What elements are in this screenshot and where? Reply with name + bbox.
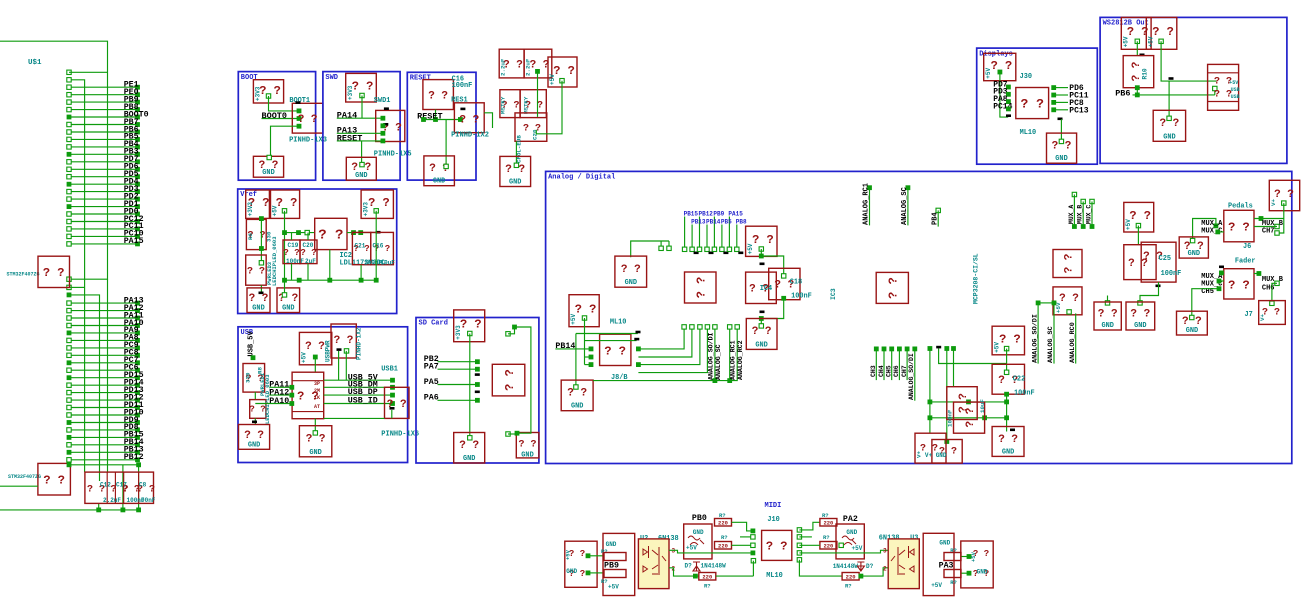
wire pin PD11: [69, 407, 137, 409]
svg-text:SWD: SWD: [325, 74, 338, 82]
wire pin PD4: [69, 183, 137, 185]
svg-text:GND: GND: [939, 540, 950, 547]
wire pin PC12: [69, 221, 137, 223]
svg-text:PB8: PB8: [736, 219, 747, 226]
svg-text:+5V: +5V: [570, 313, 577, 324]
connector PINHD-1X2 (USB aux): [331, 324, 356, 358]
ground (Displays): [1047, 133, 1077, 163]
svg-text:C20: C20: [303, 242, 314, 249]
wire LED to GND: [260, 285, 262, 294]
svg-text:AT: AT: [314, 404, 320, 410]
svg-text:PB14: PB14: [555, 342, 575, 351]
svg-text:? ?: ? ?: [283, 248, 299, 258]
svg-text:? ?: ? ?: [305, 341, 325, 353]
svg-text:J30: J30: [1020, 73, 1032, 81]
wire PA5: [438, 384, 478, 386]
wire pin PA12: [69, 310, 137, 312]
svg-text:RESET: RESET: [417, 112, 443, 122]
resistor R10: [1123, 56, 1154, 88]
wire GND to J6 MUX_A row: [1193, 219, 1216, 241]
wire pin PB3: [69, 153, 137, 155]
wire C16 to RESET row: [435, 110, 437, 120]
svg-text:+5V: +5V: [970, 551, 977, 562]
svg-text:100nF: 100nF: [1161, 270, 1182, 278]
svg-text:2.2uF: 2.2uF: [500, 58, 507, 76]
power +5V (WS b): [1146, 17, 1177, 49]
svg-text:J7: J7: [1245, 311, 1253, 319]
svg-text:USBPWR: USBPWR: [324, 340, 331, 362]
svg-text:MUX_C: MUX_C: [1086, 205, 1093, 224]
wire J10 pin5 riser: [751, 559, 755, 563]
svg-text:GND: GND: [509, 179, 521, 187]
wire pin PC7: [69, 362, 137, 364]
svg-text:J10: J10: [767, 516, 779, 524]
svg-text:100nF: 100nF: [286, 258, 304, 265]
wire pin PA13: [69, 302, 137, 304]
svg-text:2uF: 2uF: [305, 258, 316, 265]
wire net SPI1: [684, 217, 686, 250]
wire 220a to J10 pin1: [732, 522, 753, 531]
capacitor C18: [769, 268, 800, 299]
wire PB14: [555, 348, 591, 350]
wire net ANALOG_RC0 (aux): [1075, 313, 1077, 363]
wire GND stub 2: [1107, 296, 1109, 303]
svg-text:GND: GND: [571, 403, 583, 411]
svg-text:? ?: ? ?: [428, 91, 448, 103]
wire USB_DM net: [324, 386, 393, 388]
wire pin PA10: [69, 325, 137, 327]
wire net SPI4: [706, 225, 708, 250]
wire aux pin2: [345, 351, 347, 380]
connector aux (rotated) 1: [1053, 250, 1082, 278]
wire pin PD14: [69, 384, 137, 386]
diode network box (right): [836, 524, 864, 559]
wire pin PD9: [69, 422, 137, 424]
svg-text:CH3: CH3: [870, 365, 877, 377]
svg-text:+5V: +5V: [747, 243, 754, 254]
power +5V (mux): [1124, 202, 1154, 232]
resistor 220 (left b): [715, 542, 732, 550]
wire MCU pin branch 3: [69, 295, 100, 481]
wire pin PD0: [69, 213, 137, 215]
svg-text:100nF: 100nF: [452, 82, 473, 90]
svg-text:? ?: ? ?: [887, 277, 901, 299]
svg-text:? ?: ? ?: [965, 408, 977, 428]
svg-text:? ?: ? ?: [999, 333, 1021, 347]
wire +5V rail vertical: [282, 209, 286, 213]
svg-text:? ?: ? ?: [752, 233, 774, 247]
svg-text:220: 220: [823, 543, 833, 550]
wire GND drop (J8): [575, 334, 577, 388]
svg-text:R?: R?: [823, 534, 830, 541]
svg-text:+3V3: +3V3: [247, 202, 254, 217]
svg-text:2: 2: [883, 566, 887, 573]
wire +5V to C18: [761, 256, 783, 276]
power +3V3 (BOOT): [253, 80, 283, 103]
capacitor F2 2.2uF: [524, 49, 552, 78]
svg-text:? ?: ? ?: [43, 266, 65, 280]
svg-text:? ?: ? ?: [459, 440, 479, 452]
svg-text:? ?: ? ?: [249, 293, 269, 305]
svg-text:ANALOG_RC0: ANALOG_RC0: [1069, 322, 1077, 363]
svg-text:? ?: ? ?: [503, 369, 517, 391]
wire pin PB8: [69, 109, 137, 111]
resistor 220 (right b): [820, 542, 837, 550]
wire MUX_C stub (J6): [1218, 231, 1224, 233]
wire MUX_B row (J7): [1257, 271, 1262, 276]
wire MUX_B row (J6): [1259, 216, 1264, 221]
svg-text:+5V: +5V: [301, 352, 308, 363]
wire net SPI3: [699, 217, 701, 250]
wire +3V3 SD vertical: [468, 331, 472, 335]
connector V+/GND aux: [932, 440, 962, 464]
wire MCU vertical to caps: [107, 279, 109, 472]
ground (SWD): [346, 157, 376, 180]
svg-text:? ?: ? ?: [553, 64, 575, 78]
svg-text:STM32F407ZG: STM32F407ZG: [8, 474, 41, 480]
wire BOOT0: [262, 118, 300, 120]
wire net SPI2: [691, 225, 693, 250]
wire net PB4: [936, 208, 940, 212]
power +5V (J8): [569, 295, 599, 327]
pin square row D: [67, 285, 71, 289]
svg-text:GND: GND: [1002, 448, 1014, 456]
wire +5V to C22: [1004, 346, 1008, 350]
svg-text:USB1: USB1: [381, 366, 398, 374]
wire mid rail a: [930, 401, 1007, 403]
svg-text:ANALOG_SC: ANALOG_SC: [901, 187, 909, 225]
svg-text:R?: R?: [845, 583, 852, 590]
wire pin PA9: [69, 332, 137, 334]
capacitor C22: [992, 364, 1024, 394]
svg-text:GND: GND: [463, 455, 475, 463]
svg-text:CH5: CH5: [886, 365, 893, 377]
svg-text:V+: V+: [1259, 314, 1266, 321]
wire CH stub (J6): [1275, 224, 1279, 228]
ground (Vref 1): [247, 288, 270, 313]
wire +5V to J30 pin: [998, 70, 1003, 75]
svg-text:PA2: PA2: [843, 515, 858, 524]
wire net CH3: [874, 347, 879, 352]
svg-text:? ?: ? ?: [1159, 118, 1179, 130]
svg-text:BOOT: BOOT: [241, 74, 258, 82]
wire pin PB6: [69, 131, 137, 133]
svg-text:C16: C16: [373, 242, 384, 249]
svg-text:+5V: +5V: [272, 205, 279, 216]
svg-text:PA15: PA15: [728, 211, 743, 218]
ground (USB center): [299, 426, 331, 457]
power +3V3 (Vref left): [246, 190, 270, 218]
wire DIN to R (left) row2: [586, 571, 591, 576]
capacitor F1 2.2uF: [499, 49, 524, 78]
wire V+ rail vertical: [928, 346, 933, 351]
wire PA13: [337, 132, 383, 134]
wire J8 right row3: [636, 362, 641, 367]
svg-text:ANALOG_SO/DI: ANALOG_SO/DI: [1031, 314, 1039, 363]
wire aux pin1: [338, 351, 340, 380]
svg-text:C22: C22: [1013, 376, 1025, 384]
wire +5V to IC4: [759, 247, 763, 251]
connector J30 ML10: [1016, 88, 1049, 119]
svg-text:GND: GND: [606, 541, 617, 548]
svg-text:PINHD-1X5: PINHD-1X5: [374, 150, 412, 158]
svg-text:? ?: ? ?: [1214, 90, 1232, 101]
IC mux: [1124, 245, 1156, 280]
connector USB1 PINHD-1X6: [385, 387, 410, 418]
svg-text:R?: R?: [704, 583, 711, 590]
power +3V3 (SWD): [346, 73, 377, 102]
wire USB_ID net: [324, 403, 393, 405]
wire cap stubs top: [291, 233, 293, 240]
frame SWD: [323, 72, 400, 181]
svg-text:CH6: CH6: [1262, 285, 1275, 293]
regulator IC2: [315, 218, 347, 249]
svg-text:? ?: ? ?: [306, 434, 326, 446]
svg-text:? ?: ? ?: [244, 430, 264, 442]
svg-text:PB14: PB14: [706, 219, 721, 226]
svg-text:PINHD-1X2: PINHD-1X2: [451, 132, 489, 140]
LED PWRLED1: [250, 400, 266, 419]
pin square row A: [67, 70, 71, 74]
wire pin PA8: [69, 339, 137, 341]
svg-text:+5V: +5V: [565, 549, 572, 560]
connector DIN MIDI IN (left): [565, 541, 597, 587]
svg-text:USB: USB: [1231, 87, 1240, 93]
svg-text:R?: R?: [601, 578, 608, 585]
svg-text:D?: D?: [685, 563, 693, 570]
svg-text:? ?: ? ?: [1064, 254, 1076, 274]
wire into lower STM32 box: [0, 485, 38, 487]
svg-text:? ?: ? ?: [1098, 309, 1118, 321]
frame WS2812B Out: [1100, 17, 1287, 163]
svg-text:ANALOG_RC1: ANALOG_RC1: [729, 340, 736, 380]
svg-text:PB9: PB9: [713, 211, 724, 218]
svg-text:1N4148W: 1N4148W: [833, 563, 859, 570]
svg-text:R8: R8: [257, 367, 264, 374]
svg-text:220: 220: [823, 520, 833, 527]
connector LED strip out: [1208, 64, 1239, 110]
wire 220b to J10 pin3: [732, 544, 753, 546]
wire stub: [951, 346, 956, 351]
svg-text:ANALOG_RC2: ANALOG_RC2: [737, 340, 744, 380]
wire to DIN (right) row2: [967, 571, 972, 576]
svg-text:C17: C17: [116, 482, 127, 489]
svg-text:? ?: ? ?: [247, 267, 265, 278]
svg-text:? ?: ? ?: [1052, 141, 1072, 153]
svg-text:Fader: Fader: [1235, 258, 1256, 266]
wire pin PD15: [69, 377, 137, 379]
wire net MUX_A: [1072, 192, 1076, 196]
resistor 220 (left c): [699, 573, 716, 581]
svg-text:MUX_A: MUX_A: [1068, 205, 1075, 224]
wire pin PB7: [69, 124, 137, 126]
wire J8 right row4: [638, 327, 707, 373]
capacitor MSTKY A: [500, 90, 520, 118]
wire +5V a to R10: [1135, 39, 1139, 43]
wire pin PD7: [69, 161, 137, 163]
svg-text:? ?: ? ?: [318, 228, 343, 244]
wire J8 pin row a: [576, 333, 638, 335]
wire pin BOOT0: [69, 116, 137, 118]
power +5V (Vref): [271, 190, 300, 218]
frame RESET: [407, 72, 476, 180]
connector BOOT1 PINHD-1X3: [292, 103, 323, 133]
svg-text:? ?: ? ?: [1228, 220, 1250, 234]
wire +5V to mux IC: [1136, 223, 1140, 227]
svg-text:C25: C25: [1159, 255, 1171, 263]
wire pin PB5: [69, 138, 137, 140]
svg-text:PB5: PB5: [721, 219, 732, 226]
svg-text:USB: USB: [1231, 94, 1240, 100]
svg-text:PA14: PA14: [337, 111, 357, 121]
svg-text:+5V: +5V: [993, 342, 1000, 353]
pin square row E: [67, 293, 72, 298]
ground (RESET): [424, 156, 455, 186]
svg-text:MSTKY: MSTKY: [500, 96, 507, 114]
svg-text:GND: GND: [1163, 133, 1175, 141]
svg-text:ANALOG_SC: ANALOG_SC: [715, 344, 722, 380]
svg-text:PC13: PC13: [1069, 106, 1088, 115]
svg-text:MSTKY: MSTKY: [523, 96, 530, 114]
svg-text:C20: C20: [532, 129, 539, 140]
svg-text:? ?: ? ?: [1059, 293, 1079, 305]
wire net CH6: [897, 347, 902, 352]
wire aux rail: [1038, 302, 1053, 304]
ground (SD left): [454, 433, 485, 464]
svg-text:RESET: RESET: [337, 133, 363, 143]
power +5V USBPWR: [299, 332, 331, 364]
svg-text:GND: GND: [282, 305, 294, 313]
svg-text:? ?: ? ?: [1274, 189, 1294, 201]
svg-text:ML10: ML10: [610, 318, 627, 326]
connector J9 (rotated): [685, 272, 717, 303]
svg-text:GND: GND: [566, 568, 577, 575]
svg-text:PB4: PB4: [931, 212, 939, 225]
wire +5V to C20: [560, 79, 564, 83]
svg-text:STM32F407ZG: STM32F407ZG: [7, 272, 40, 278]
wire PC8: [1051, 100, 1056, 105]
frame Vref: [238, 189, 397, 314]
svg-text:GND: GND: [1055, 155, 1067, 163]
wire RESET to GND: [445, 120, 447, 167]
svg-text:? ?: ? ?: [695, 277, 709, 299]
SD socket: [492, 364, 525, 396]
wire USB_DP net: [324, 394, 393, 396]
svg-text:PB12: PB12: [699, 211, 714, 218]
svg-text:+5V: +5V: [985, 67, 992, 78]
wire net CH4: [882, 347, 887, 352]
svg-text:? ?: ? ?: [1127, 25, 1149, 39]
svg-text:R6: R6: [247, 233, 254, 240]
wire RESET row: [337, 140, 383, 142]
wire RESET net: [424, 119, 461, 121]
wire CH6 to V+ (J7): [1275, 281, 1279, 285]
wire pin PC10: [69, 235, 137, 237]
wire cap bank vertical 2: [138, 465, 140, 510]
wire PC11: [1051, 93, 1056, 98]
wire LED to GND: [254, 418, 256, 424]
svg-text:USB_ID: USB_ID: [348, 397, 378, 406]
svg-text:10uF: 10uF: [979, 399, 986, 413]
connector J7: [1224, 269, 1254, 299]
svg-text:220: 220: [718, 543, 728, 550]
capacitor C20b: [300, 240, 317, 264]
wire mid rail b: [930, 417, 1007, 419]
capacitor MSTKY B: [520, 90, 546, 118]
connector J6: [1224, 210, 1254, 242]
svg-text:GND: GND: [1188, 250, 1200, 258]
resistor R6 330: [246, 219, 266, 249]
ground (USB left): [239, 425, 270, 450]
wire 220 to opto pin2 (right): [859, 568, 888, 576]
connector DIN MIDI OUT (right): [961, 541, 993, 588]
resistor network box (right): [923, 533, 954, 595]
svg-text:GND: GND: [433, 178, 445, 186]
svg-text:ANALOG_SO/DI: ANALOG_SO/DI: [707, 332, 714, 380]
wire pin PB15: [69, 436, 137, 438]
resistor 220 (right a): [820, 519, 837, 527]
svg-text:? ?: ? ?: [752, 326, 772, 338]
wire PINHD right stub: [484, 113, 492, 128]
svg-text:220: 220: [702, 574, 712, 581]
pin square row C: [67, 277, 71, 281]
wire net MUX_C: [1090, 199, 1094, 203]
wire vin row: [285, 232, 315, 234]
connector J10 ML10: [762, 530, 792, 560]
frame BOOT: [238, 72, 315, 181]
svg-text:PB0: PB0: [692, 514, 707, 523]
svg-text:C19: C19: [288, 242, 299, 249]
svg-text:? ?: ? ?: [766, 540, 788, 554]
svg-text:PA15: PA15: [124, 237, 144, 246]
wire J8 pin row b: [585, 340, 637, 342]
svg-text:GND: GND: [1101, 322, 1113, 330]
power +5V (Displays): [984, 53, 1016, 80]
svg-text:+3V3: +3V3: [347, 85, 354, 100]
svg-text:? ?: ? ?: [459, 114, 479, 126]
wire J30 to GND: [1058, 118, 1063, 121]
wire +3V3 to BOOT1 pin1: [266, 94, 270, 98]
svg-text:GND: GND: [1186, 327, 1198, 335]
wire net SPI8: [736, 225, 738, 250]
wire pin PD5: [69, 176, 137, 178]
svg-text:R10: R10: [1142, 68, 1149, 79]
frame Displays: [977, 48, 1098, 164]
ground (J8): [561, 380, 593, 411]
svg-text:2M: 2M: [314, 388, 320, 394]
ground (header): [615, 256, 647, 287]
wire net CH7: [905, 347, 910, 352]
resistor R8 330: [243, 364, 265, 393]
wire cap bank vertical 1: [122, 465, 124, 510]
wire BOOT pin3 to GND: [271, 126, 300, 157]
svg-text:SWD1: SWD1: [374, 97, 391, 105]
capacitor bank C12/C17/C8: [85, 472, 154, 503]
wire USB connector to GND: [314, 418, 316, 433]
wire +3V3 through R6 to LED: [259, 216, 264, 221]
svg-text:C18: C18: [790, 278, 802, 286]
wire J10 pin8: [797, 543, 801, 547]
ground (J6): [1179, 237, 1208, 258]
svg-text:PA7: PA7: [424, 363, 439, 372]
wire PA6: [438, 399, 478, 401]
svg-text:? ?: ? ?: [604, 344, 626, 358]
svg-text:PA6: PA6: [424, 394, 439, 403]
svg-text:BOOT0: BOOT0: [262, 111, 288, 121]
capacitor 100nF (V+): [947, 387, 977, 420]
wire PB2: [438, 361, 478, 363]
wire pin PE1: [69, 86, 137, 88]
